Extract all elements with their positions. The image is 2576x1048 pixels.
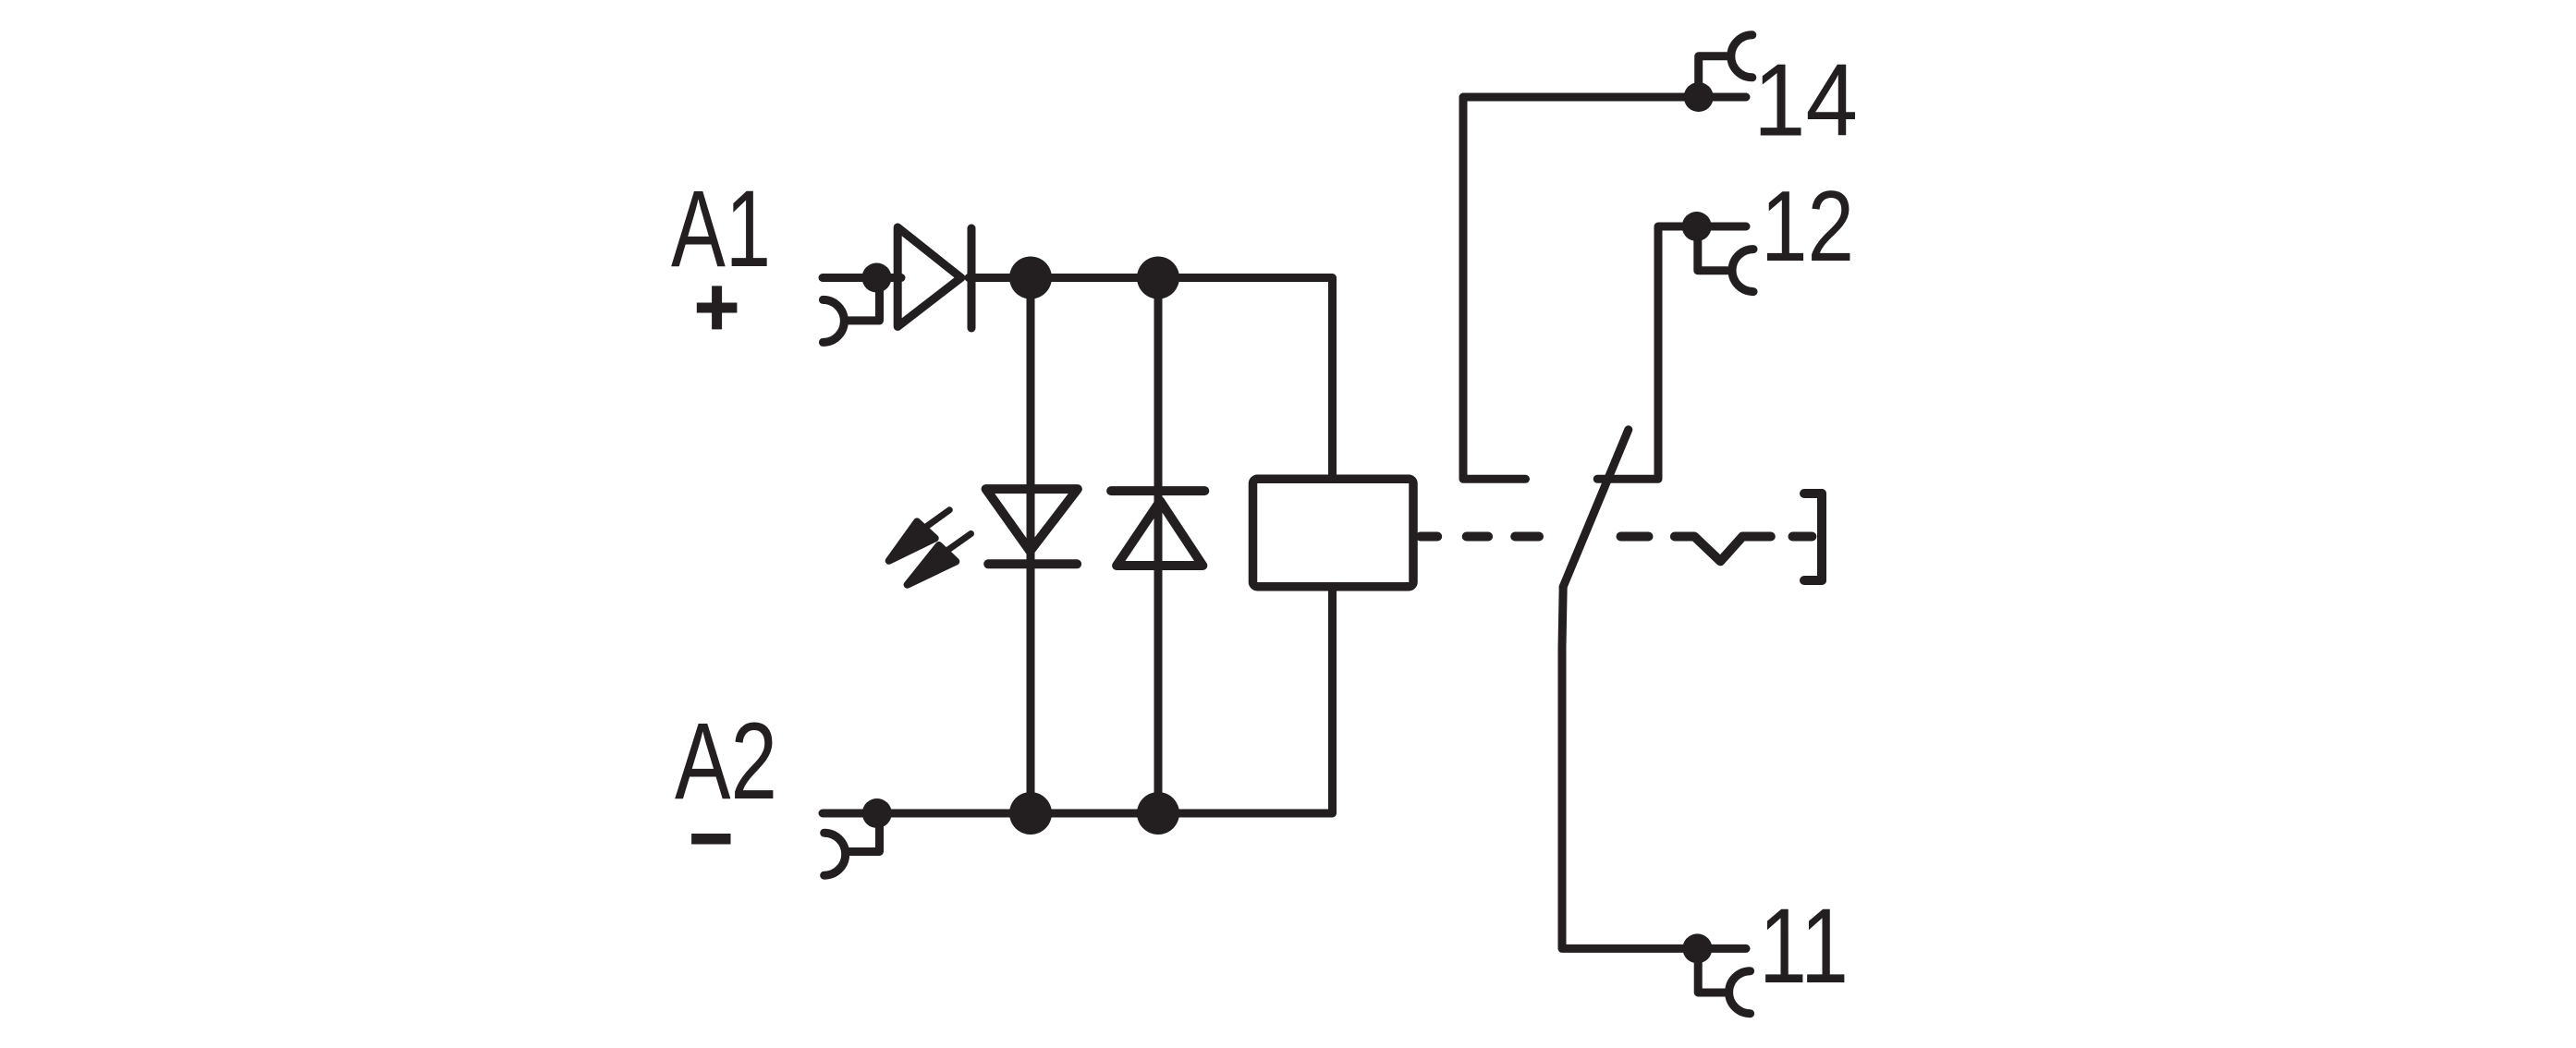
freewheeling diode cathode bar: [1111, 486, 1204, 495]
node dot 14: [1684, 82, 1714, 112]
svg-text:14: 14: [1753, 43, 1858, 158]
wire A1 horizontal: [823, 274, 901, 282]
wire terminal 14 to switch contact: [1463, 97, 1746, 479]
clamp terminal 11: [1698, 953, 1727, 993]
switch blade: [1563, 430, 1629, 587]
minus sign at A2: [691, 834, 730, 845]
svg-text:11: 11: [1759, 887, 1849, 1005]
diode D1 (series diode at A1): [897, 227, 961, 326]
svg-text:A2: A2: [675, 701, 777, 823]
node dot 12: [1682, 212, 1712, 241]
junction dot diode branch top: [1137, 257, 1179, 299]
LED LED1 triangle: [986, 489, 1078, 551]
junction dot diode branch bottom: [1137, 792, 1179, 835]
clamp terminal A2: [847, 817, 880, 852]
wire switch common to terminal 11: [1562, 587, 1746, 949]
svg-text:A1: A1: [671, 168, 771, 290]
junction dot LED branch top: [1009, 257, 1052, 299]
mechanical link spring notch: [1675, 537, 1771, 562]
plus sign at A1: [697, 286, 738, 329]
clamp terminal A1: [847, 282, 880, 321]
wire coil bottom to A2: [823, 587, 1333, 813]
wire LED branch vertical: [1027, 278, 1035, 814]
clamp terminal 12: [1698, 231, 1728, 271]
freewheeling diode D2 triangle: [1117, 501, 1203, 566]
mechanical link last dash: [1793, 532, 1813, 542]
LED cathode bar: [988, 559, 1077, 568]
wire terminal 12 to switch contact: [1597, 226, 1746, 479]
LED light arrow upper: [889, 510, 950, 561]
armature stop bracket: [1804, 494, 1822, 580]
node dot 11: [1682, 933, 1712, 963]
node dot A1: [862, 263, 892, 293]
svg-text:12: 12: [1761, 170, 1854, 283]
node dot A2: [862, 798, 892, 828]
relay coil K1: [1253, 479, 1414, 586]
wire diode branch vertical: [1154, 278, 1163, 814]
clamp terminal 14: [1699, 56, 1727, 92]
junction dot LED branch bottom: [1009, 792, 1052, 835]
wire A1 to coil elbow: [969, 278, 1333, 480]
mechanical link dashes coil to blade: [1421, 532, 1649, 542]
LED light arrow lower: [908, 534, 971, 585]
